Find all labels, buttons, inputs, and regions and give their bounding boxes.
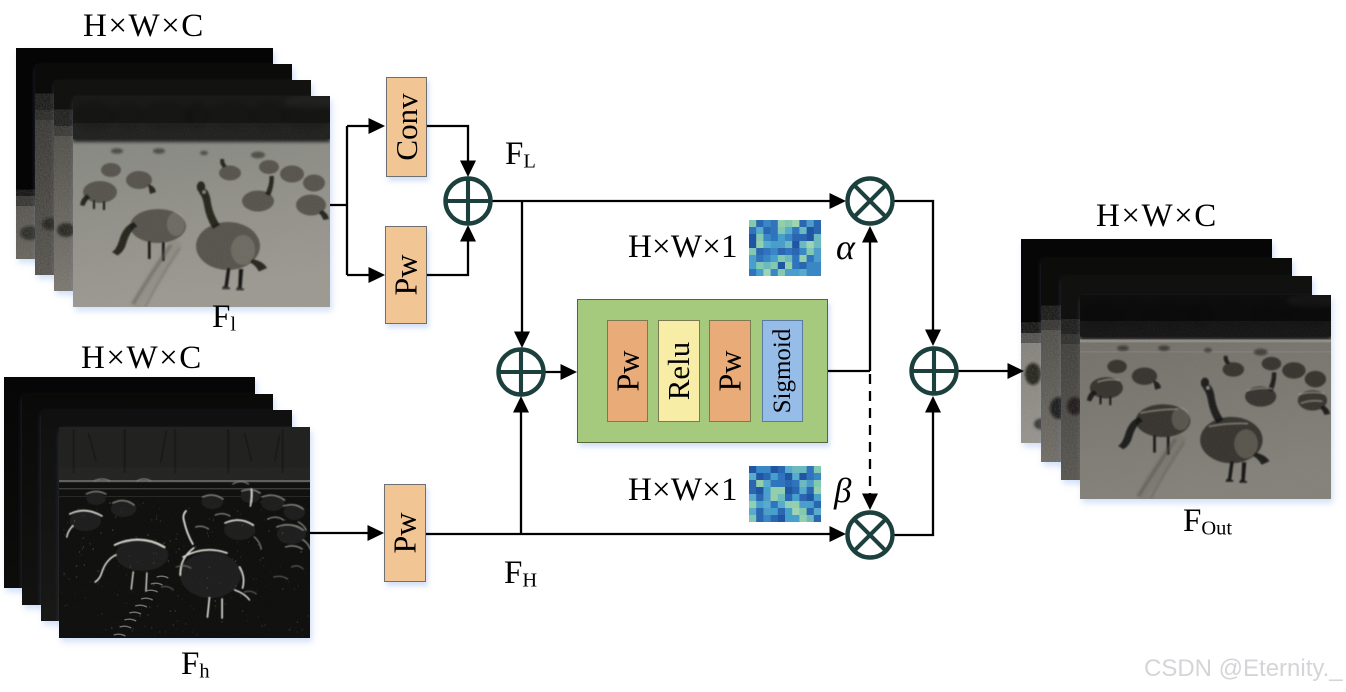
attention module (green) (577, 299, 828, 443)
wire+arrow: Pw out to adder1 (427, 241, 468, 275)
label F_l (212, 299, 236, 336)
wire+arrow: adder3 to output stack (957, 370, 1008, 372)
multiplier alpha (circle-times) (848, 179, 893, 224)
wire: attention module out (828, 370, 870, 372)
wire: F_l stack to branch (330, 204, 347, 206)
label HxWxC (bottom-left) (81, 340, 203, 377)
wire+arrow: adder2 to attention module (544, 371, 561, 373)
multiplier beta (circle-times) (848, 513, 893, 558)
Pw box (upper) (385, 226, 427, 324)
wire+arrow: dashed down to multiplier beta (869, 374, 871, 496)
wire+arrow: F_H junction up to adder2 (520, 412, 522, 534)
label F_Out (1183, 503, 1232, 540)
label HxWxC (top-left) (83, 8, 205, 45)
label alpha (836, 226, 855, 268)
wire+arrow: F_L line to multiplier alpha (491, 200, 830, 202)
adder1 (circle-plus) (446, 179, 491, 224)
label F_H (504, 555, 537, 592)
wire+arrow: solid up to multiplier alpha (869, 242, 871, 371)
adder3 (circle-plus) (912, 349, 957, 394)
Pw box (module, 1st) (607, 320, 648, 422)
Sigmoid box (762, 320, 803, 422)
output feature map stack F_Out (1021, 239, 1331, 499)
wire+arrow: Conv out to adder1 (427, 126, 468, 161)
Pw box (lower) (384, 484, 426, 582)
wire+arrow: multiplier alpha to adder3 (893, 201, 933, 330)
label F_h (181, 646, 210, 683)
Pw box (module, 2nd) (709, 320, 751, 422)
wire+arrow: into Conv (347, 125, 369, 127)
wire+arrow: F_H line to multiplier beta (426, 533, 830, 535)
input feature map stack F_h (4, 377, 310, 638)
wire: branch vertical (346, 126, 348, 275)
watermark CSDN (1144, 655, 1343, 683)
input feature map stack F_l (16, 48, 330, 307)
wire+arrow: into Pw upper (347, 274, 369, 276)
label beta (834, 471, 851, 511)
label HxWx1 (alpha map) (628, 229, 738, 266)
label F_L (505, 136, 536, 173)
Conv box (386, 77, 427, 177)
wire+arrow: F_L junction down to adder2 (521, 201, 523, 332)
wire+arrow: F_h stack to Pw lower (310, 532, 368, 534)
label HxWx1 (beta map) (628, 472, 738, 509)
wire+arrow: multiplier beta to adder3 (893, 412, 933, 535)
alpha attention map HxWx1 (749, 220, 821, 276)
adder2 (circle-plus) (499, 350, 544, 395)
label HxWxC (top-right) (1096, 198, 1218, 235)
Relu box (658, 320, 700, 422)
beta attention map HxWx1 (749, 466, 821, 522)
